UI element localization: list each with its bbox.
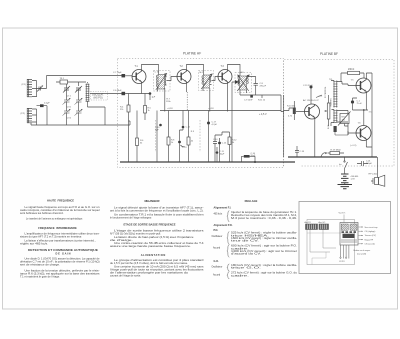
svg-text:Retoucher les noyaux des trois: Retoucher les noyaux des trois transfos … [231, 214, 297, 217]
switch box TR1 [56, 80, 71, 84]
svg-text:Axe PO: Axe PO [305, 221, 312, 224]
label T6 [358, 123, 362, 125]
label T1 [135, 65, 139, 68]
resistor R16 230 ohm [341, 71, 364, 81]
IF transformer M2 [201, 74, 212, 89]
svg-text:R.13 56k: R.13 56k [287, 105, 296, 107]
wire AGC line [240, 95, 262, 98]
svg-text:Accord: Accord [213, 273, 221, 276]
label C17 [212, 122, 218, 126]
label potentiometer [325, 86, 327, 98]
dashed box oscillator [91, 92, 108, 101]
resistor R8 [167, 111, 170, 163]
svg-text:sert de résistance de charge.: sert de résistance de charge. [20, 264, 60, 267]
wire T6 base [348, 131, 356, 135]
label C6 [113, 90, 122, 92]
resistor R19 [328, 152, 345, 155]
label P2 [21, 113, 26, 115]
svg-text:0,1µF: 0,1µF [44, 103, 50, 105]
wire detector to BF [262, 95, 284, 157]
label +6V [350, 145, 357, 147]
svg-text:100µF: 100µF [366, 163, 373, 165]
svg-text:HAUTE FREQUENCE: HAUTE FREQUENCE [47, 198, 74, 202]
label TR top [329, 79, 333, 81]
resistor R13 [293, 101, 296, 120]
label C8e [152, 97, 156, 99]
variable capacitor CV4 [75, 109, 83, 116]
svg-text:HP 2,5Ω: HP 2,5Ω [369, 174, 378, 176]
svg-text:Vue E.T.: Vue E.T. [339, 213, 347, 215]
svg-text:réglés sur 465 kc/s.: réglés sur 465 kc/s. [20, 243, 48, 246]
label C14 [213, 139, 218, 141]
switch Int [344, 157, 348, 173]
resistor R18 [334, 126, 349, 135]
svg-text:Bobine sur le noyau: Bobine sur le noyau [354, 249, 371, 252]
label pins [339, 261, 345, 263]
svg-text:75 nF: 75 nF [357, 103, 363, 105]
svg-text:Oscillateur: Oscillateur [212, 235, 223, 238]
label C10 [155, 127, 160, 131]
svg-text:C.7 10pF: C.7 10pF [113, 72, 122, 74]
wire T3 collector to M3 [228, 65, 241, 77]
caption bobine [354, 249, 371, 255]
svg-text:CV (accord): CV (accord) [365, 243, 375, 246]
pins below core [340, 245, 349, 259]
svg-text:Alignement P.O.: Alignement P.O. [214, 224, 233, 227]
label PLATINE HF [183, 52, 201, 56]
svg-text:C.9 10nF: C.9 10nF [244, 99, 253, 101]
transistor T2 [177, 70, 191, 84]
svg-text:teur de CV.: teur de CV. [231, 240, 260, 243]
variable capacitor CV2 [63, 109, 71, 116]
svg-text:assure une large bande passant: assure une large bande passante basse fr… [110, 245, 191, 248]
svg-text:CV PO: CV PO [339, 261, 345, 263]
label T5 [351, 80, 355, 82]
capacitor C15 (black dot) [218, 138, 221, 162]
svg-text:M.3 pour le maximum : 0,46 - 0: M.3 pour le maximum : 0,46 - 0,46 - 0,46… [231, 217, 298, 220]
wire top rail to T1 [47, 75, 122, 77]
wire osc output [88, 94, 122, 126]
wire C21 drop [364, 157, 366, 170]
NTC thermistor [338, 112, 351, 126]
chassis bus HF [120, 161, 295, 163]
label R7 [166, 99, 171, 104]
capacitor C19 (black dot) [310, 86, 313, 105]
svg-text:cadre.: cadre. [231, 247, 250, 250]
svg-text:PLATINE BF: PLATINE BF [320, 52, 338, 56]
capacitor C1 (black) [37, 104, 48, 107]
callout labels [365, 226, 379, 246]
volume potentiometer P [325, 95, 330, 126]
label R5 [148, 108, 152, 113]
svg-text:AC 126: AC 126 [303, 99, 311, 102]
speaker HP [371, 166, 385, 186]
svg-text:Vers circuit imp.: Vers circuit imp. [365, 226, 379, 229]
capacitor C13 (black dot) [178, 130, 184, 162]
label C8 [260, 83, 267, 87]
capacitor C11 (black dot) [216, 147, 219, 162]
resistor R6 [136, 111, 139, 163]
capacitor C7 (black square, top) [122, 74, 133, 77]
svg-text:Alignement F.I.: Alignement F.I. [214, 206, 232, 209]
label C13 [182, 147, 187, 149]
label tuning refs [67, 96, 72, 120]
wire T2 emitter down [186, 83, 188, 92]
svg-text:REGLAGE: REGLAGE [245, 199, 258, 203]
braces col3 [227, 211, 229, 279]
label M3 [240, 72, 244, 74]
svg-text:(P.2): (P.2) [21, 113, 26, 115]
svg-text:Int.: Int. [339, 163, 342, 166]
label D1 [244, 95, 266, 102]
antenna coil L1 (cadre PO) [27, 79, 37, 97]
label C15 [222, 143, 227, 145]
svg-text:+ 4,5 V: + 4,5 V [259, 113, 267, 116]
wire AGC dashed [186, 92, 188, 111]
svg-text:sistors du type AF7 (T.2 et T.: sistors du type AF7 (T.2 et T.3) montés … [20, 235, 82, 238]
label C18 [300, 151, 305, 153]
junction dot [149, 92, 152, 100]
label C12 [186, 127, 191, 129]
svg-text:180 kc/s (CV ouvert) : régler: 180 kc/s (CV ouvert) : régler la bobine … [231, 264, 297, 267]
label C16 [251, 153, 257, 157]
wire vue pointer [343, 215, 345, 223]
trimmer caps in M1 [158, 87, 165, 112]
wire T5 collector to rail [366, 73, 372, 157]
resistor R9 [187, 111, 190, 163]
wire T5 base [342, 84, 356, 86]
svg-text:CV (réglage): CV (réglage) [365, 230, 376, 233]
driver transformer TD primary [333, 81, 337, 108]
capacitor C14 [213, 135, 222, 162]
svg-text:(P.1): (P.1) [22, 84, 27, 86]
battery B1 [341, 173, 349, 185]
trimmer CT2 [63, 86, 70, 93]
figure frame [299, 202, 391, 274]
wire oscillator links [67, 82, 87, 125]
label R8 [171, 140, 175, 144]
IF transformer M1 [156, 74, 167, 91]
label M1 [155, 72, 160, 74]
label battery [351, 176, 359, 181]
svg-text:20µF: 20µF [251, 155, 257, 157]
column 1 [20, 198, 100, 278]
label coil HF [305, 221, 312, 224]
svg-text:4,7µF: 4,7µF [212, 124, 218, 126]
label +4,5 bf [318, 96, 323, 98]
label R19 [331, 150, 341, 152]
label +4,5V [259, 113, 267, 116]
trimmer CT3 [75, 86, 82, 93]
label oscillator [92, 94, 104, 100]
svg-text:ant à la fois la conversion de: ant à la fois la conversion de fréquence… [110, 210, 204, 213]
variable capacitor CV1 [63, 98, 71, 105]
svg-text:POTENTIOM.: POTENTIOM. [325, 86, 327, 98]
resistor R5 [144, 106, 147, 114]
svg-text:(HS PO): (HS PO) [94, 97, 103, 100]
label T3 [221, 65, 225, 68]
variable capacitor CV3 [75, 98, 83, 105]
TEXT AREA [20, 198, 391, 279]
dashed enclosure PLATINE HF [118, 59, 284, 168]
capacitor C10 in M1 [159, 124, 162, 127]
wire M1 to T2 [167, 77, 178, 81]
wire T3 emitter down [227, 83, 229, 111]
IF transformer M3 [237, 75, 249, 91]
transistor T3 [218, 70, 232, 84]
svg-text:trice HS/HEA.: trice HS/HEA. [231, 234, 270, 237]
supply rail +4,5V [160, 110, 281, 112]
svg-text:trice G.O.: trice G.O. [231, 267, 262, 270]
column 3 [212, 199, 298, 279]
capacitor C8 [247, 77, 258, 96]
svg-text:ETAGE DE SORTIE BASSE FREQ: ETAGE DE SORTIE BASSE FREQUENCE [124, 223, 176, 227]
label R9 [191, 131, 195, 143]
label C11 [220, 151, 226, 155]
label mid 7,5 [369, 112, 373, 114]
oscillator coil L3 [86, 82, 90, 103]
chassis bus BF [288, 156, 377, 158]
svg-text:1,5V: 1,5V [351, 179, 356, 181]
svg-text:FREQUENCE INTERMEDIAIRE: FREQUENCE INTERMEDIAIRE [38, 226, 77, 230]
capacitor C21 [357, 161, 368, 166]
svg-text:1400 kc/s (CV ouvert) : agir s: 1400 kc/s (CV ouvert) : agir sur le trim… [231, 250, 297, 253]
resistor R12 [222, 132, 231, 162]
label T4 [303, 99, 319, 102]
IF transformer M1 shield (dashed) [154, 71, 171, 153]
capacitor C16 (black electrolytic) [242, 155, 257, 163]
svg-text:cadre.: cadre. [231, 274, 250, 277]
svg-text:R.11 1k: R.11 1k [258, 99, 266, 101]
wire left column to bus [117, 121, 130, 125]
feedback arrow [321, 152, 327, 156]
svg-text:DE GAIN: DE GAIN [56, 251, 71, 255]
transistor T1 [132, 70, 146, 84]
svg-text:1600 kc/s (CV ouvert) : régler: 1600 kc/s (CV ouvert) : régler le trimme… [231, 237, 297, 240]
node mid-point [353, 109, 369, 125]
column 2 [110, 199, 205, 278]
svg-text:525 kc/s (CV fermé) : régler l: 525 kc/s (CV fermé) : régler la bobine o… [231, 232, 297, 235]
transistor T4 [305, 104, 320, 119]
svg-text:NTC: NTC [342, 117, 347, 119]
wire antenna vertical bus [37, 76, 47, 124]
label vue ET [339, 213, 347, 215]
driver transformer TD secondary [333, 110, 337, 123]
wire bus drop to battery [377, 157, 379, 166]
svg-text:Le transfert de l’antenne au m: Le transfert de l’antenne au mélangeur e… [26, 218, 83, 221]
trimmer caps in M3 [240, 90, 247, 95]
label T2 [180, 65, 184, 68]
svg-text:10µF: 10µF [220, 153, 226, 155]
wire column C10 [156, 111, 158, 163]
label PLATINE BF [320, 52, 338, 56]
SCHEMATIC AREA [21, 52, 395, 189]
transistor T6 [356, 126, 371, 141]
label coil BF [319, 221, 326, 224]
capacitor C20 (black dot) [351, 98, 357, 110]
label R12 [232, 140, 237, 144]
label C1 [44, 103, 50, 105]
svg-text:272 kc/s (CV fermé) : agir sur: 272 kc/s (CV fermé) : agir sur la bobine… [231, 272, 298, 275]
label C19 [303, 85, 313, 87]
svg-text:Axe GO: Axe GO [319, 221, 326, 224]
wire T2 collector to M2 [187, 65, 204, 76]
svg-text:PLATINE HF: PLATINE HF [183, 52, 201, 56]
dashed enclosure PLATINE BF [284, 60, 395, 167]
label TD [329, 97, 332, 107]
label R18 [328, 124, 330, 129]
svg-text:ALIMENTATION: ALIMENTATION [141, 253, 166, 257]
label TR1 [60, 78, 65, 80]
IF transformer M2 shield (dashed) [199, 71, 214, 153]
label Int [339, 163, 342, 166]
label P1 [22, 84, 27, 86]
svg-text:P.O.: P.O. [214, 229, 219, 232]
label M2 [200, 72, 204, 74]
wire T4 emitter down [314, 119, 316, 157]
resistor R4 [127, 105, 130, 112]
svg-text:courant de l’étage de sortie.: courant de l’étage de sortie. [110, 275, 141, 278]
capacitor C17 (black dot) [207, 111, 210, 163]
ferrite core block (vue ET) [340, 223, 358, 246]
label R16 [348, 69, 354, 71]
label C21 [366, 161, 373, 166]
wire T6 emitter to bus [366, 141, 372, 147]
svg-text:Accord: Accord [213, 247, 221, 250]
svg-text:600 kc/s (CV fermé) : agir sur: 600 kc/s (CV fermé) : agir sur la bobine… [231, 245, 298, 248]
svg-text:230 Ω: 230 Ω [348, 69, 354, 71]
antenna coil L2 (cadre GO) [27, 108, 37, 123]
svg-text:T.1 et maintient le gain de l’: T.1 et maintient le gain de l’étage. [20, 276, 60, 279]
svg-text:C.19 50µF: C.19 50µF [303, 85, 313, 87]
svg-text:(vue profil): (vue profil) [357, 253, 366, 256]
label R6 [140, 140, 144, 145]
capacitor C12 (black dot) [182, 111, 185, 131]
label R13 [287, 105, 296, 117]
capacitor C6 (black square, lower) [122, 92, 151, 95]
svg-text:TRANSFO: TRANSFO [329, 97, 332, 107]
capacitor C18 [295, 146, 299, 157]
transistor T5 [356, 78, 371, 93]
label C7 [113, 72, 122, 74]
IF transformer M3 shield (dashed) [235, 73, 252, 93]
svg-text:d’accord du CV.: d’accord du CV. [231, 253, 262, 256]
svg-text:MELANGEUR: MELANGEUR [145, 199, 160, 203]
diode D1 [232, 80, 240, 162]
wire NTC links [345, 111, 349, 136]
trimmer caps in M2 [203, 88, 210, 112]
label R4 [120, 107, 124, 112]
svg-text:sont bobinées les bobines d’ac: sont bobinées les bobines d’accord. [20, 212, 64, 215]
coil block HF [306, 224, 318, 230]
wire TD leads [331, 81, 348, 127]
wire M2 to T3 [212, 77, 219, 81]
wire T1 collector to M1 [142, 65, 159, 75]
wire base T4 [284, 108, 305, 112]
ground [338, 185, 353, 189]
figure box [299, 202, 391, 274]
svg-text:Oscillateur: Oscillateur [212, 265, 223, 268]
label NTC [342, 117, 347, 122]
svg-text:90-10 P: 90-10 P [311, 100, 319, 102]
svg-text:+4,5V: +4,5V [167, 108, 173, 110]
wire T1 emitter down [129, 83, 146, 162]
svg-text:(+ 6 V): (+ 6 V) [350, 145, 357, 147]
wire bottom return [31, 106, 117, 125]
svg-text:Noyau HF: Noyau HF [365, 239, 374, 241]
chassis outline [307, 220, 355, 265]
wire +4.5 tick [316, 95, 322, 98]
trimmer capacitor CT1 [37, 86, 43, 92]
svg-text:Injecter la séquence de base d: Injecter la séquence de base du générate… [231, 211, 297, 214]
label rail left [167, 108, 214, 110]
svg-text:+4,5V: +4,5V [208, 108, 214, 110]
svg-text:465 kc/s: 465 kc/s [214, 213, 224, 215]
svg-text:le fonctionnement de l’étage m: le fonctionnement de l’étage mélangeur. [110, 216, 152, 219]
label HP [369, 174, 378, 176]
svg-text:470 pF: 470 pF [260, 85, 267, 87]
svg-text:Trimmer (CV): Trimmer (CV) [365, 234, 377, 237]
callout arrows right [359, 227, 364, 245]
wire T5 emitter [353, 93, 367, 110]
coil block BF [319, 224, 329, 230]
svg-text:G.O.: G.O. [214, 260, 220, 263]
label C20 [357, 101, 363, 106]
svg-text:C.6 48nF: C.6 48nF [113, 90, 122, 92]
svg-text:R.19 180Ω: R.19 180Ω [331, 150, 341, 152]
